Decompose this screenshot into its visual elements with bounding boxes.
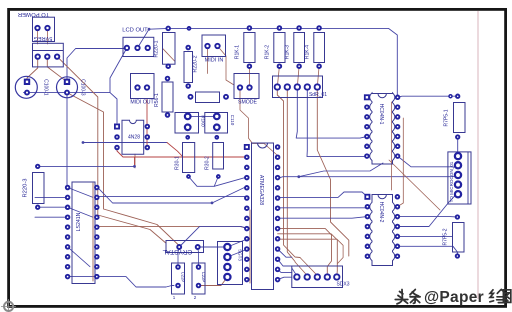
wire isp diag 1: [227, 239, 247, 247]
wire 5V reg to cap1: [27, 57, 38, 82]
wire hc04n2 right 3: [397, 246, 457, 256]
connector TO MICROCONTROLLER: [448, 152, 471, 204]
IC HC04N-2: [370, 195, 395, 266]
wire 5V rail caps: [24, 93, 118, 123]
wire nested bus 3: [278, 239, 344, 263]
svg-text:R1K-4: R1K-4: [305, 45, 311, 59]
via on top rail: [188, 27, 191, 30]
wire long branch: [299, 163, 383, 177]
wire conn3 to hc04n1 a: [296, 87, 367, 138]
wire r220-3 top rail: [38, 165, 135, 167]
connector MIDI IN: [202, 35, 226, 57]
capacitor C100-3: [57, 77, 78, 98]
via junction dots: [133, 165, 136, 168]
watermark text tou: [395, 290, 408, 304]
connector SGT3: [218, 242, 243, 285]
svg-text:CRYSTAL: CRYSTAL: [162, 248, 192, 255]
svg-text:R30-2: R30-2: [204, 156, 210, 170]
wire opto gnd red: [117, 148, 248, 158]
svg-text:R30-1: R30-1: [174, 156, 180, 170]
wire atmega internal rail: [249, 210, 251, 283]
svg-text:4N28: 4N28: [128, 135, 140, 141]
svg-text:TO POWER: TO POWER: [18, 11, 49, 17]
svg-text:R1K-1: R1K-1: [235, 45, 241, 59]
svg-text:ATMEGA328: ATMEGA328: [258, 175, 264, 205]
wire r220-3 bottom: [38, 206, 68, 208]
capacitor C22P-2: [192, 263, 205, 294]
svg-text:@Paper: @Paper: [424, 289, 484, 306]
wire conn1 down: [277, 87, 300, 258]
IC LS241N: [72, 182, 95, 284]
svg-text:R220-2: R220-2: [193, 55, 199, 72]
wire atmega to hc04n2 2: [278, 207, 368, 208]
wire red internal 2: [397, 118, 403, 207]
wire reg to rail B: [67, 93, 179, 245]
switch S1: [175, 113, 199, 134]
svg-text:R7P5-1: R7P5-1: [444, 109, 450, 126]
wire opto stub down: [134, 154, 136, 168]
connector SMODE: [234, 74, 259, 99]
connector SDX3: [292, 266, 343, 288]
watermark text tu: [503, 290, 510, 303]
wire smode down: [240, 88, 278, 158]
svg-text:TO MICROCON_01: TO MICROCON_01: [449, 161, 454, 202]
svg-text:SGT3: SGT3: [238, 249, 243, 261]
watermark text tiao: [410, 290, 420, 304]
wire power pin2: [47, 28, 49, 44]
wire atmega to hc04n2 3: [278, 217, 368, 219]
wire ls241 pin row1: [35, 196, 68, 198]
wire isp diag 2: [227, 249, 247, 257]
wire crystal right to isp: [198, 246, 228, 248]
wire ls241 internal 2: [68, 207, 93, 217]
via near R7P5-1: [449, 95, 452, 98]
wire nested bus 2: [278, 234, 338, 277]
wire atmega to sdx 1: [278, 249, 292, 257]
wire nested bus 1: [278, 229, 332, 277]
wire sdx diag 3: [300, 258, 317, 276]
wire ls241 pin row2: [35, 216, 68, 218]
svg-text:SMODE: SMODE: [238, 100, 258, 106]
wire r30 gnd link: [189, 177, 248, 187]
wire sdx inner diag: [292, 268, 297, 276]
svg-text:5VREG: 5VREG: [34, 35, 53, 41]
wire sdx diag 2: [295, 262, 307, 276]
connector MIDI OUT: [131, 74, 155, 99]
wire atmega to sdx 3: [278, 269, 292, 272]
wire cap2 to LCD pin1: [67, 49, 127, 82]
svg-text:C22P: C22P: [201, 272, 206, 283]
wire 5V reg to cap2: [47, 57, 67, 82]
wire hc04n1 red internal: [391, 102, 393, 190]
wire cap2 to ls241 feed: [66, 93, 68, 188]
wire ls241 internal 1: [68, 188, 93, 198]
wire c22p2 up: [197, 248, 200, 267]
wire midi-out to opto: [146, 99, 148, 148]
svg-text:C110: C110: [230, 115, 235, 126]
svg-text:R1K-3: R1K-3: [285, 45, 291, 59]
svg-text:C22P: C22P: [181, 272, 186, 283]
IC HC04N-1: [370, 93, 395, 164]
svg-text:R1K-2: R1K-2: [265, 45, 271, 59]
svg-text:SDX3: SDX3: [336, 282, 349, 288]
svg-text:R7P5-2: R7P5-2: [443, 228, 449, 245]
capacitor C22P-1: [172, 263, 185, 294]
resistor R360: [196, 92, 220, 103]
wire power pin1: [37, 28, 39, 44]
wire crystal to xtal1: [179, 226, 248, 247]
svg-text:R220-3: R220-3: [23, 178, 29, 197]
wire midi-in pin1 down: [207, 46, 209, 74]
svg-text:MIDI IN: MIDI IN: [205, 58, 224, 64]
svg-text:C100-3: C100-3: [80, 79, 86, 96]
wire ls241 to atmega 1: [97, 196, 248, 198]
wire ls241 internal rail: [92, 183, 94, 281]
wire conn5 down: [317, 87, 349, 256]
svg-text:R56-1: R56-1: [154, 93, 160, 107]
wire r1k2 to conn: [277, 66, 279, 87]
wire midi-in pin2 down: [218, 46, 235, 85]
svg-text:R220-1: R220-1: [154, 40, 160, 57]
wire reg to rail A: [57, 57, 166, 243]
wire hc04n2 diag to mcu: [397, 196, 458, 227]
wire atmega to sdx 4: [278, 277, 292, 279]
svg-text:R1K0: R1K0: [201, 115, 206, 127]
wire LCD pin2 up to top rail: [138, 29, 150, 48]
crystal Y1: [166, 241, 204, 253]
IC ATMEGA328: [252, 143, 274, 290]
wire conn4 to hc04n1 b: [307, 87, 367, 157]
wire ls241 internal 3: [68, 247, 90, 267]
wire red junction: [134, 157, 136, 166]
svg-text:SdR_01: SdR_01: [309, 92, 327, 98]
svg-text:LS241N: LS241N: [76, 212, 82, 231]
wire r7p5-1 to mcu conn: [457, 137, 459, 157]
svg-text:HC04N-2: HC04N-2: [378, 202, 384, 223]
wire LCD pin1 branch: [110, 48, 127, 93]
svg-text:C100-1: C100-1: [43, 79, 49, 96]
svg-text:LCD OUT: LCD OUT: [122, 28, 148, 34]
wire r30-2 link: [214, 177, 218, 187]
svg-text:HC04N-1: HC04N-1: [378, 104, 384, 125]
wire r1k4 to conn: [317, 66, 319, 87]
wire red diag right: [389, 160, 440, 210]
wire ls241 gnd bottom: [68, 277, 174, 287]
wire c22p2 gnd: [199, 277, 228, 286]
switch S2: [205, 113, 228, 134]
optocoupler 4N28: [122, 120, 144, 154]
wire hc04n2 to r7p5-2: [397, 216, 457, 218]
capacitor C100-1: [15, 76, 37, 98]
connector SdR-01: [273, 76, 323, 98]
pink grid line: [477, 11, 479, 299]
wire top rail: [149, 28, 397, 95]
corner target marker: [4, 302, 13, 311]
wire hc04n1 out to conn pin2: [398, 156, 458, 167]
wire conn2 down: [287, 87, 295, 262]
wire ls241 vcc red: [97, 226, 248, 228]
wire bus through opto: [83, 142, 167, 144]
wire atmega to sdx 2: [278, 259, 292, 266]
wire atmega long gnd: [278, 176, 458, 178]
wire ls241 to atmega 2: [97, 186, 248, 203]
wire hc04n2 right 2: [397, 235, 452, 237]
wire r1k1 to smode: [248, 66, 250, 87]
wire opto diag to red rail: [167, 143, 183, 158]
wire r1k3 to conn: [297, 66, 299, 87]
wire switch link: [188, 115, 217, 117]
wire atmega to hc04n2 1: [278, 192, 368, 197]
wire r220-1 diag: [163, 49, 175, 62]
wire hc04n1 pin8 to r7p5-1: [398, 96, 458, 97]
wire c22p1 up: [178, 248, 179, 267]
svg-text:MIDI OUT: MIDI OUT: [130, 100, 154, 106]
watermark text hui: [490, 289, 506, 302]
